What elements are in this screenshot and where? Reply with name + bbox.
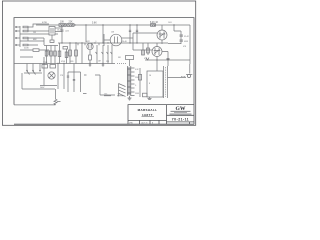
- input jack J4: [16, 44, 20, 45]
- svg-text:FUSE: FUSE: [43, 62, 47, 64]
- capacitor C6 tremolo: [67, 72, 69, 92]
- svg-text:16: 16: [149, 75, 151, 77]
- svg-text:32+32: 32+32: [184, 36, 189, 38]
- wire feedback: [84, 75, 115, 95]
- capacitor C3 filter: [136, 25, 138, 43]
- svg-text:CH1: CH1: [168, 22, 172, 24]
- resistor R1 68K: [23, 26, 28, 28]
- capacitor C1 coupling: [61, 25, 64, 43]
- potentiometer VR3: [107, 45, 109, 64]
- svg-text:220K: 220K: [24, 48, 29, 50]
- inner drawing frame: [14, 18, 194, 125]
- wire v2 link: [44, 50, 49, 62]
- resistor R22: [63, 47, 68, 50]
- switch S1: [27, 64, 30, 75]
- input jack J3: [16, 37, 20, 38]
- capacitor C7 tremolo: [73, 72, 75, 92]
- wire x148 drop: [147, 43, 150, 55]
- outer border frame: [2, 1, 195, 125]
- svg-text:1M: 1M: [33, 32, 36, 34]
- wire V3 input: [104, 34, 110, 46]
- tube V1: [49, 27, 55, 36]
- wire switch row: [24, 72, 42, 74]
- wire input bus: [19, 26, 21, 47]
- logo divider: [167, 114, 195, 116]
- resistor R3 1M: [23, 37, 28, 39]
- potentiometer VR1: [96, 45, 98, 64]
- wire lamp right: [58, 64, 64, 90]
- pilot lamp PL1: [48, 72, 55, 79]
- wire cathode1: [20, 33, 49, 35]
- transformer T2 box: [147, 71, 163, 97]
- wire dashed gnd: [117, 63, 126, 65]
- ground transformer: [128, 96, 132, 100]
- switch S2: [33, 64, 36, 75]
- capacitor C4: [180, 35, 184, 36]
- svg-text:JULY 70: JULY 70: [141, 123, 147, 125]
- resistor R6: [33, 49, 39, 52]
- transformer T1 winding: [127, 66, 130, 96]
- resistor R2 68K: [23, 30, 28, 32]
- wire second stage: [20, 50, 49, 57]
- svg-text:70-21-11: 70-21-11: [172, 118, 189, 122]
- wire V4 anode: [161, 25, 163, 44]
- capacitor C11 tone: [54, 46, 57, 64]
- resistor R23: [58, 43, 61, 64]
- capacitor C8 bias: [143, 93, 148, 97]
- svg-text:22K: 22K: [69, 22, 74, 24]
- fuse F3: [146, 58, 170, 61]
- title strip line: [128, 119, 167, 121]
- tube V3 phase inverter: [110, 34, 122, 46]
- resistor R7: [69, 43, 72, 64]
- wire V3 out top: [122, 37, 133, 39]
- svg-text:240V: 240V: [40, 87, 45, 89]
- transformer T1 taps: [131, 68, 135, 96]
- wire drop x82: [81, 43, 83, 64]
- wire OT top: [167, 52, 169, 67]
- svg-text:16+16: 16+16: [57, 30, 62, 32]
- wire tone row: [44, 45, 58, 47]
- switch S3: [40, 64, 41, 72]
- node heater junctions: [156, 59, 168, 60]
- capacitor C10 tone: [50, 46, 53, 64]
- svg-text:820: 820: [71, 61, 74, 63]
- wire lamp left: [40, 64, 57, 86]
- wire cathode V1: [52, 34, 58, 40]
- wire B+ top rail: [36, 24, 190, 26]
- resistor R25 screen: [151, 24, 156, 27]
- wire mid rail: [58, 42, 168, 44]
- resistor R5 cathode: [50, 40, 54, 43]
- transformer T2 core: [164, 66, 168, 98]
- resistor R9 cathode V2: [89, 50, 92, 64]
- wire stage3 drop: [102, 25, 104, 43]
- wire heater rail: [145, 59, 190, 61]
- svg-text:MARSHALL: MARSHALL: [138, 108, 158, 112]
- wire screen rail: [168, 43, 181, 45]
- wire grid1: [28, 24, 49, 31]
- logo address lines: [170, 111, 192, 114]
- svg-text:1987T: 1987T: [142, 113, 153, 117]
- number box line: [167, 122, 195, 124]
- wire ground rail: [14, 63, 115, 65]
- tube V2: [87, 43, 93, 49]
- resistor R10: [142, 43, 145, 55]
- wire grid V1: [55, 31, 62, 33]
- wire grid4: [20, 38, 44, 45]
- svg-text:50+50: 50+50: [122, 41, 127, 43]
- wire bottom return: [14, 104, 56, 106]
- wire grid V5: [133, 49, 152, 51]
- resistor R21 10K: [67, 24, 74, 27]
- node ground junctions: [43, 63, 103, 64]
- wire rail pin stubs: [78, 43, 99, 45]
- capacitor C9 tone: [45, 46, 48, 64]
- label 1987T: [142, 113, 155, 117]
- svg-text:10K: 10K: [60, 22, 65, 24]
- tube V5 EL34: [152, 47, 162, 57]
- wire stage2 drop: [85, 25, 87, 42]
- fuse F2: [50, 65, 56, 69]
- wire speaker: [168, 77, 187, 79]
- wire plate V1: [55, 27, 62, 29]
- title block outline: [128, 105, 194, 125]
- input jack J1: [16, 26, 20, 27]
- wire tremolo: [68, 64, 81, 93]
- resistor R24: [65, 49, 68, 64]
- svg-text:5.6K: 5.6K: [92, 23, 97, 25]
- wire mains bottom: [22, 73, 55, 89]
- wire right drop: [189, 25, 191, 64]
- svg-text:.022: .022: [86, 41, 90, 43]
- wire V5 anode: [157, 43, 168, 71]
- wire rectifier: [139, 68, 141, 97]
- transformer T1 top cap: [126, 56, 134, 67]
- ground symbol mid1: [89, 64, 92, 67]
- input jack J2: [16, 30, 20, 31]
- potentiometer VR4: [111, 45, 113, 64]
- wire grid3: [28, 38, 44, 41]
- wire grid V4: [133, 33, 157, 50]
- potentiometer VR2: [102, 45, 104, 64]
- svg-text:.1: .1: [95, 41, 96, 43]
- voltage selector: [119, 84, 126, 97]
- node mid junctions: [61, 42, 137, 43]
- svg-text:FS1: FS1: [118, 57, 121, 59]
- title strip dividers: [140, 120, 160, 124]
- capacitor C2 filter: [129, 25, 131, 43]
- resistor R4 1M: [23, 44, 28, 46]
- resistor R20 10K: [59, 24, 66, 27]
- ground output: [148, 97, 152, 100]
- ground symbol mid2: [102, 64, 105, 67]
- speaker jack J5: [181, 64, 192, 78]
- capacitor C5: [180, 40, 184, 41]
- resistor R11 zigzag: [54, 89, 61, 105]
- resistor R26: [138, 75, 141, 81]
- svg-text:8: 8: [149, 83, 150, 85]
- wire HT drop: [174, 25, 181, 44]
- fuse F1: [42, 65, 48, 69]
- tube V4 EL34: [157, 30, 167, 40]
- svg-text:0: 0: [135, 85, 136, 87]
- resistor R8: [75, 43, 78, 64]
- node J1: [74, 24, 174, 25]
- wire grid2: [28, 30, 49, 32]
- wire stub marks: [83, 94, 124, 96]
